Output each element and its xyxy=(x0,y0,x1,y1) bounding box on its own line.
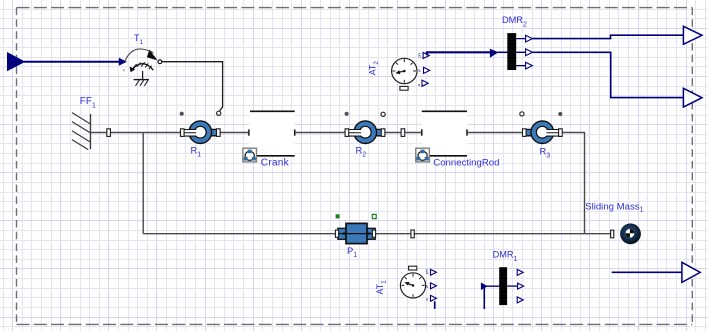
body box Crank xyxy=(243,111,295,162)
connector square before ConnectingRod xyxy=(401,129,405,137)
svg-text:ConnectingRod: ConnectingRod xyxy=(433,157,499,168)
body box ConnectingRod xyxy=(416,111,467,162)
demultiplexer DMR2 xyxy=(507,33,516,70)
sliding mass wheel xyxy=(620,223,641,244)
input connector triangle xyxy=(7,52,25,71)
revolute joint R2 xyxy=(347,121,383,144)
wire FF1 to Crank (main axis) xyxy=(91,132,250,134)
wire DMR2.out2 to output y2 xyxy=(533,52,684,97)
svg-text:a: a xyxy=(425,299,429,301)
wire T1 to R1 axis xyxy=(162,62,223,111)
AT2 output triangles xyxy=(423,52,429,58)
connector squares R3 xyxy=(523,129,527,137)
wire input to torque T1 xyxy=(24,61,119,63)
wire bottom rail through P1 to sliding mass xyxy=(143,233,611,235)
demultiplexer DMR1 xyxy=(499,267,507,305)
connector squares R2 xyxy=(345,129,349,137)
flange circle left of R3 xyxy=(520,112,524,116)
DMR1 output triangles xyxy=(517,269,523,275)
fixed frame FF1 xyxy=(72,113,91,150)
AT1 output triangles xyxy=(431,269,437,275)
wire sliding mass output to y3 xyxy=(612,271,682,273)
connector squares P1 xyxy=(335,230,338,237)
flange circle right of R2 xyxy=(381,112,385,116)
prismatic joint P1 xyxy=(338,223,375,243)
wire ConnectingRod through R3 then down to slider rail xyxy=(467,133,585,234)
wire branch down from fixed frame xyxy=(142,133,144,234)
svg-text:phi: phi xyxy=(418,53,422,58)
revolute joint R3 xyxy=(525,121,561,144)
flange dot right of R3 xyxy=(558,112,562,116)
DMR2 output stubs xyxy=(516,39,525,66)
wire AT2.phi to DMR2 input xyxy=(427,52,491,55)
wire stub up to DMR1 input xyxy=(483,288,485,310)
svg-text:w: w xyxy=(418,69,422,72)
P1 state select squares xyxy=(336,214,340,218)
output connector y1 xyxy=(683,26,702,44)
DMR1 output stub xyxy=(507,285,517,287)
DMR2 output triangles xyxy=(526,35,533,42)
torque source T1 xyxy=(123,49,162,86)
DMR1 input arrow xyxy=(481,283,488,291)
connector square on rail xyxy=(411,230,414,238)
wire DMR2.out1 to output y1 xyxy=(533,35,684,38)
connector square FF1 xyxy=(107,129,111,137)
svg-text:a: a xyxy=(417,84,421,86)
angle sensor AT1 xyxy=(375,266,426,298)
output connector y2 xyxy=(683,88,702,107)
svg-text:τ: τ xyxy=(123,67,125,72)
svg-text:Sliding Mass1: Sliding Mass1 xyxy=(585,201,643,213)
flange connector of sliding mass xyxy=(611,230,614,238)
flange dot left of R2 xyxy=(345,112,349,116)
connector squares R1 xyxy=(181,129,185,137)
svg-text:Crank: Crank xyxy=(261,158,290,169)
output connector y3 xyxy=(682,262,700,282)
wire Crank to ConnectingRod xyxy=(295,132,422,134)
wire stub below AT1.a xyxy=(434,301,436,309)
svg-text:w: w xyxy=(425,285,429,288)
revolute joint R1 xyxy=(182,121,218,144)
flange dot left of R1 xyxy=(180,112,184,116)
angle sensor AT2 xyxy=(368,58,417,90)
svg-text:phi: phi xyxy=(425,269,429,274)
